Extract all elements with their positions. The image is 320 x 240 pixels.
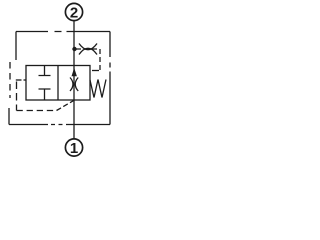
pilot line down to spring chamber (dashed) — [99, 49, 101, 71]
position divider — [57, 66, 59, 101]
valve envelope (two position boxes) — [26, 66, 90, 101]
control orifice arcs — [79, 44, 97, 55]
flow arrow head — [72, 68, 77, 76]
enclosure left edge upper segment — [15, 32, 17, 61]
pilot line through control orifice (dashed) — [76, 48, 100, 50]
variable restriction arcs — [70, 78, 78, 92]
enclosure top edge (chain line) — [16, 31, 110, 33]
enclosure bottom edge (chain line) — [9, 124, 110, 126]
junction node on main line — [72, 47, 76, 51]
pilot line bottom horizontal (dashed) — [17, 110, 57, 112]
svg-text:1: 1 — [70, 140, 78, 157]
pilot line into spring end (dashed) — [92, 70, 99, 72]
port 1 circle — [65, 139, 82, 156]
enclosure left edge dashed middle segment — [9, 62, 11, 98]
wire: valve bottom to port 1 — [73, 100, 75, 139]
wire: port 2 to valve top — [73, 21, 75, 66]
flow path line through right position — [73, 66, 75, 101]
enclosure left edge lower solid corner — [8, 108, 10, 125]
pilot line left horizontal (dashed) — [16, 79, 22, 81]
port 2 circle — [65, 3, 82, 20]
svg-text:2: 2 — [70, 4, 78, 21]
enclosure right edge (chain line) — [109, 32, 111, 125]
blocked port symbol lower T — [39, 89, 51, 100]
pilot stub on left position — [24, 79, 27, 81]
blocked port symbol upper T — [39, 66, 51, 76]
pilot line diagonal to downstream (dashed) — [57, 101, 74, 111]
pilot line left vertical (dashed) — [16, 82, 18, 111]
spring — [90, 80, 106, 98]
